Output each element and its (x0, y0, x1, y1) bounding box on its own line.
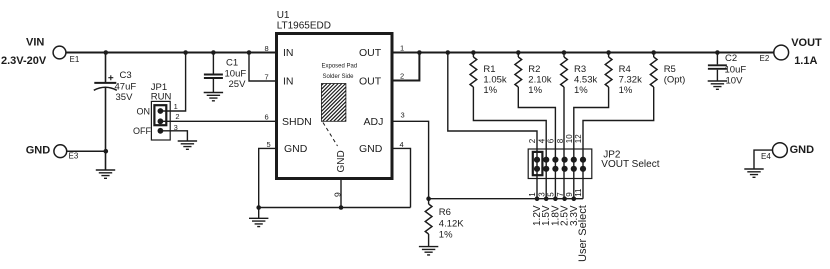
svg-text:11: 11 (574, 188, 583, 197)
svg-text:6: 6 (547, 138, 556, 143)
wire C2 to ground (716, 70, 718, 81)
pin 9 label JP2 (565, 192, 574, 197)
junction IN pin7 riser (247, 50, 252, 55)
ground (IC) (249, 218, 268, 226)
svg-text:1: 1 (528, 192, 537, 197)
svg-text:2.3V-20V: 2.3V-20V (1, 55, 47, 67)
svg-text:9: 9 (565, 192, 574, 197)
resistor R4 7.32k (605, 53, 642, 96)
connector JP2 VOUT Select (528, 149, 592, 179)
svg-text:8: 8 (556, 138, 565, 143)
svg-text:10V: 10V (726, 75, 744, 86)
wire E4 to ground (754, 150, 773, 169)
svg-text:7: 7 (265, 73, 269, 82)
svg-text:GND: GND (26, 145, 51, 157)
svg-text:47uF: 47uF (115, 82, 137, 93)
junction JP2 pin 7 on ADJ bus (562, 196, 567, 201)
svg-text:R6: R6 (439, 207, 451, 218)
junction JP2 pin 1 on ADJ bus (535, 196, 540, 201)
svg-text:1: 1 (400, 44, 404, 53)
node VIN label (1, 37, 47, 68)
node User Select label (577, 205, 589, 262)
op-amp/regulator U1 LT1965EDD (277, 10, 393, 179)
wire JP1 pin3 to ground (160, 131, 187, 141)
svg-text:4.53k: 4.53k (574, 74, 597, 85)
ground (input) (96, 170, 115, 178)
wire GND pin5 down (259, 148, 277, 207)
node 1.8V label (550, 205, 561, 226)
dashed lead to GND pad name (323, 123, 338, 147)
capacitor C3 47uF 35V (polarized) (94, 70, 137, 103)
wire R1 to JP2 (473, 87, 546, 199)
junction E3/C3 ground (104, 149, 109, 154)
svg-text:User Select: User Select (577, 205, 589, 262)
svg-text:VIN: VIN (26, 37, 44, 49)
wire C1 to ground (212, 79, 214, 93)
wire IC ground bus (259, 207, 411, 209)
svg-text:LT1965EDD: LT1965EDD (277, 21, 331, 32)
svg-text:Exposed Pad: Exposed Pad (322, 63, 358, 69)
junction R5 tap (651, 50, 656, 55)
svg-text:7: 7 (556, 192, 565, 197)
svg-text:10uF: 10uF (725, 65, 747, 76)
wire JP2 col1 feed from rail (448, 53, 537, 199)
ground (C1) (204, 93, 223, 101)
wire C2 branch down (716, 53, 718, 65)
junction JP2 pin 5 on ADJ bus (553, 196, 558, 201)
svg-text:5: 5 (267, 140, 271, 149)
pin 8 label JP2 (556, 138, 565, 143)
resistor R6 4.12K (425, 199, 464, 247)
wire IN pin7 riser (249, 53, 277, 82)
wire stub to IC ground (258, 208, 260, 219)
svg-text:4: 4 (537, 138, 546, 143)
svg-text:OUT: OUT (359, 76, 382, 88)
junction JP2 pin 3 on ADJ bus (544, 196, 549, 201)
svg-text:2: 2 (175, 112, 179, 121)
pin 5 label JP2 (547, 192, 556, 197)
svg-text:IN: IN (283, 47, 294, 59)
svg-text:Solder Side: Solder Side (323, 74, 355, 80)
wire JP1 pin2 to SHDN (160, 120, 276, 122)
jumper JP1 RUN (133, 82, 172, 140)
svg-text:2: 2 (400, 72, 404, 81)
svg-text:OFF: OFF (133, 126, 151, 136)
resistor R5 (Opt) (650, 53, 685, 88)
svg-text:1%: 1% (528, 85, 542, 96)
node VOUT label (791, 37, 822, 67)
svg-text:2: 2 (528, 138, 537, 143)
svg-text:E1: E1 (70, 55, 80, 64)
svg-text:E4: E4 (761, 152, 771, 161)
junction pin9/bus (339, 205, 344, 210)
junction JP2 pin 9 on ADJ bus (572, 196, 577, 201)
junction R1 tap (471, 50, 476, 55)
svg-text:SHDN: SHDN (282, 116, 312, 128)
terminal E4 (761, 143, 787, 161)
wire JP1 pin1 to VIN rail (160, 53, 185, 112)
wire GND pin4 route (392, 148, 411, 207)
svg-text:C2: C2 (725, 53, 737, 64)
capacitor C2 10uF 10V (708, 53, 746, 86)
svg-text:1%: 1% (439, 230, 453, 241)
svg-text:3: 3 (401, 111, 405, 120)
junction JP1 pin1 riser (183, 50, 188, 55)
pin 4 label JP2 (537, 138, 546, 143)
ground (R6) (419, 247, 438, 255)
wire ADJ bus to JP2 (429, 198, 583, 200)
pin 10 label JP2 (565, 134, 574, 143)
node 1.2V label (532, 205, 543, 226)
svg-text:6: 6 (265, 113, 269, 122)
wire down to input ground (105, 151, 107, 170)
exposed pad (solder side) (321, 63, 357, 121)
terminal E2 (760, 45, 789, 63)
wire R4 to JP2 (574, 87, 609, 199)
junction C3 tap (104, 50, 109, 55)
pin 1 label JP2 (528, 192, 537, 197)
svg-text:C1: C1 (226, 58, 238, 69)
svg-text:1%: 1% (574, 85, 588, 96)
node 2.5V label (560, 205, 571, 226)
ground (JP1 off) (178, 141, 197, 149)
svg-text:ON: ON (137, 107, 151, 117)
svg-text:1.1A: 1.1A (794, 55, 817, 67)
terminal E3 (54, 145, 79, 161)
svg-text:10uF: 10uF (225, 68, 247, 79)
svg-text:ADJ: ADJ (364, 116, 384, 128)
ground (E4) (744, 169, 763, 177)
wire ADJ pin3 route (392, 121, 429, 198)
svg-text:VOUT: VOUT (791, 37, 822, 49)
junction ADJ/R6 (426, 196, 431, 201)
pin 7 label JP2 (556, 192, 565, 197)
wire VOUT rail (pin 1 to E2) (392, 52, 774, 54)
svg-text:(Opt): (Opt) (664, 74, 686, 85)
junction pin2 riser (417, 50, 422, 55)
pin 11 label JP2 (574, 188, 583, 197)
junction R3 tap (562, 50, 567, 55)
terminal E1 (53, 46, 80, 64)
GND pad label (rotated) (336, 150, 347, 172)
node 1.5V label (541, 205, 552, 226)
pin 2 label JP2 (528, 138, 537, 143)
resistor R2 2.10k (515, 53, 552, 96)
svg-text:7.32k: 7.32k (619, 74, 642, 85)
wire C3 branch down (106, 53, 107, 83)
svg-text:IN: IN (283, 76, 294, 88)
wire R2 to JP2 (518, 87, 555, 199)
svg-text:E3: E3 (69, 152, 79, 161)
svg-text:25V: 25V (229, 79, 247, 90)
svg-text:OUT: OUT (359, 47, 382, 59)
svg-text:GND: GND (336, 150, 347, 172)
wire R3 to JP2 (563, 87, 565, 199)
junction R4 tap (606, 50, 611, 55)
svg-text:GND: GND (359, 143, 383, 155)
svg-text:12: 12 (574, 134, 583, 143)
resistor R1 1.05k (470, 53, 507, 96)
svg-text:VOUT Select: VOUT Select (601, 159, 659, 170)
wire E3 to ground junction (67, 150, 106, 152)
svg-text:C3: C3 (120, 70, 132, 81)
svg-text:3: 3 (537, 192, 546, 197)
junction JP2 col1 feed (446, 50, 451, 55)
wire VIN rail (E1 to IC pin 8) (66, 52, 277, 54)
svg-text:E2: E2 (760, 54, 770, 63)
svg-text:U1: U1 (277, 10, 290, 21)
ground (C2) (708, 81, 727, 89)
svg-text:1.05k: 1.05k (483, 74, 506, 85)
svg-text:2.10k: 2.10k (528, 74, 551, 85)
pin 6 label JP2 (547, 138, 556, 143)
wire OUT pin2 riser (392, 53, 419, 81)
wire C1 branch down (212, 53, 214, 74)
resistor R3 4.53k (561, 53, 598, 96)
svg-text:4.12K: 4.12K (439, 219, 464, 230)
wire GND pin9 down (340, 179, 342, 208)
svg-text:5: 5 (547, 192, 556, 197)
junction pin5/bus (256, 205, 261, 210)
svg-text:35V: 35V (116, 92, 134, 103)
svg-text:1%: 1% (619, 85, 633, 96)
pin 12 label JP2 (574, 134, 583, 143)
pin 3 label JP2 (537, 192, 546, 197)
junction C2 tap (715, 50, 720, 55)
junction C1 tap (211, 50, 216, 55)
node 3.3V label (569, 205, 580, 226)
JP2 name label (601, 149, 659, 170)
capacitor C1 10uF 25V (204, 58, 246, 91)
svg-text:GND: GND (790, 144, 815, 156)
svg-text:4: 4 (400, 140, 404, 149)
svg-text:10: 10 (565, 134, 574, 143)
svg-text:1: 1 (174, 102, 178, 111)
svg-text:GND: GND (284, 143, 308, 155)
svg-text:1%: 1% (483, 85, 497, 96)
wire C3 to GND node (105, 88, 107, 152)
junction R2 tap (516, 50, 521, 55)
wire R5 to JP2 (583, 87, 654, 199)
svg-text:8: 8 (265, 44, 269, 53)
pin 9 label (rotated) (333, 192, 343, 197)
